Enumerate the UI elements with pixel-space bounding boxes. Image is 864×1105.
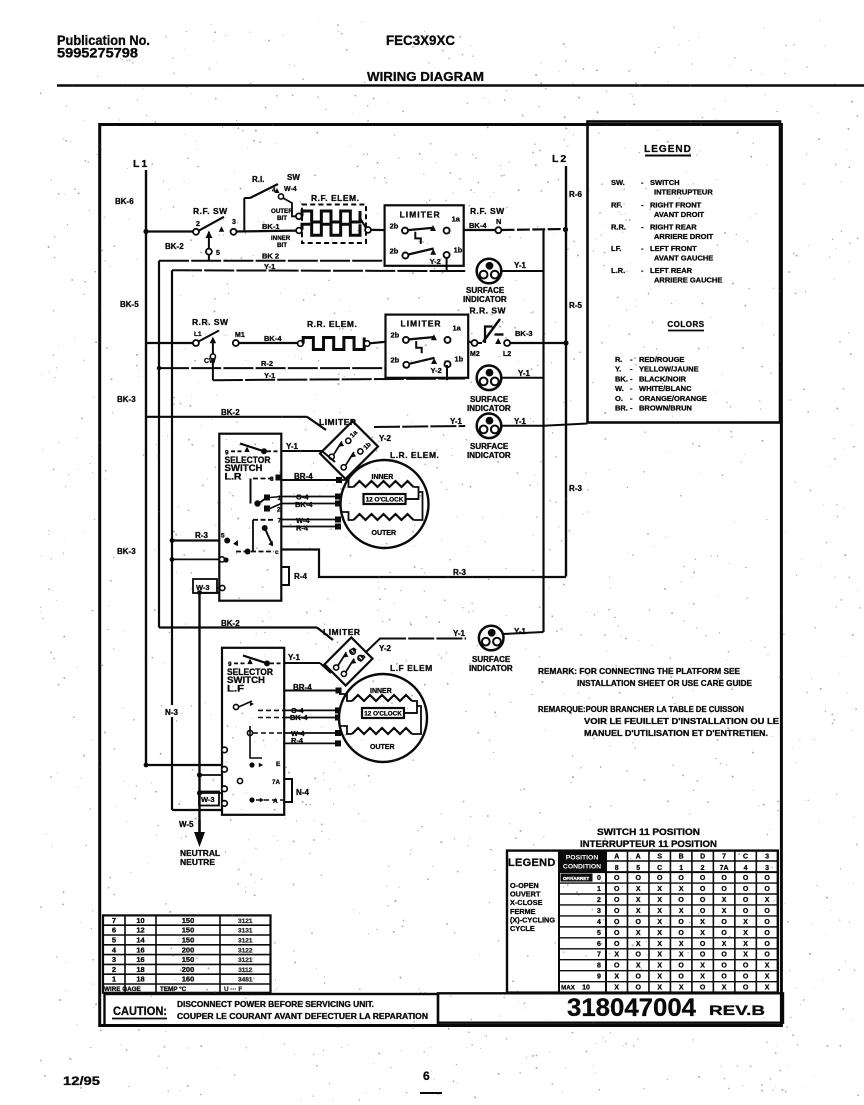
svg-text:7: 7 [722, 854, 726, 861]
svg-text:BK-4: BK-4 [264, 334, 282, 343]
svg-text:O: O [743, 974, 749, 981]
svg-text:LIMITER: LIMITER [401, 319, 442, 329]
svg-text:E: E [276, 761, 281, 768]
svg-text:O: O [700, 952, 706, 959]
svg-text:OUTER: OUTER [271, 208, 293, 215]
svg-text:BK.: BK. [615, 374, 628, 383]
svg-text:BK 2: BK 2 [262, 252, 279, 261]
svg-text:REMARK: FOR CONNECTING THE PLA: REMARK: FOR CONNECTING THE PLATFORM SEE [538, 667, 741, 676]
svg-text:6: 6 [112, 926, 116, 935]
svg-text:200: 200 [182, 965, 195, 974]
svg-text:X: X [722, 908, 727, 915]
svg-text:A: A [614, 854, 619, 861]
svg-text:X: X [657, 897, 662, 904]
svg-text:R.F. ELEM.: R.F. ELEM. [311, 193, 359, 203]
svg-text:c: c [275, 549, 279, 556]
svg-text:X: X [700, 963, 705, 970]
svg-text:RED/ROUGE: RED/ROUGE [639, 355, 684, 364]
svg-text:2b: 2b [390, 246, 399, 255]
svg-text:WIRE GAGE: WIRE GAGE [104, 986, 141, 993]
svg-text:3481: 3481 [238, 977, 253, 984]
svg-text:X: X [636, 941, 641, 948]
svg-text:X: X [700, 930, 705, 937]
svg-text:L1: L1 [194, 331, 202, 338]
svg-text:X: X [657, 908, 662, 915]
svg-text:12/95: 12/95 [63, 1076, 101, 1088]
svg-text:Y-2: Y-2 [431, 366, 442, 375]
svg-text:BIT: BIT [277, 242, 287, 249]
svg-text:Y-2: Y-2 [379, 434, 392, 443]
svg-text:O: O [614, 919, 620, 926]
svg-text:O: O [743, 985, 749, 992]
svg-text:9: 9 [225, 450, 229, 457]
svg-text:BK-5: BK-5 [120, 300, 139, 309]
svg-text:3112: 3112 [238, 967, 252, 974]
svg-text:L.R: L.R [225, 472, 243, 482]
svg-text:R.F. SW: R.F. SW [193, 206, 228, 216]
svg-text:OFF/ARRET: OFF/ARRET [563, 876, 589, 881]
svg-text:R-2: R-2 [261, 359, 273, 368]
svg-text:OUTER: OUTER [372, 530, 397, 537]
svg-text:O: O [678, 930, 684, 937]
svg-text:COLORS: COLORS [667, 320, 704, 329]
svg-text:2: 2 [597, 897, 601, 904]
svg-text:X: X [722, 897, 727, 904]
svg-text:7A: 7A [720, 865, 729, 872]
svg-text:7: 7 [278, 518, 282, 525]
svg-text:NEUTRE: NEUTRE [180, 857, 215, 867]
svg-text:X: X [700, 974, 705, 981]
svg-text:SW.: SW. [611, 178, 625, 187]
svg-text:3: 3 [765, 865, 769, 872]
svg-text:O: O [700, 886, 706, 893]
svg-text:O: O [635, 952, 641, 959]
svg-text:A: A [636, 854, 641, 861]
svg-text:N: N [496, 217, 501, 226]
svg-text:L.R.: L.R. [611, 266, 625, 275]
svg-text:O: O [614, 897, 620, 904]
svg-text:O: O [635, 919, 641, 926]
svg-text:1: 1 [112, 975, 116, 984]
svg-text:INDICATOR: INDICATOR [467, 451, 511, 460]
svg-text:MANUEL D'UTILISATION ET D'ENTR: MANUEL D'UTILISATION ET D'ENTRETIEN. [584, 729, 768, 738]
svg-text:O: O [721, 875, 727, 882]
svg-text:16: 16 [136, 955, 144, 964]
svg-text:CAUTION:: CAUTION: [113, 1004, 167, 1018]
svg-text:BK-4: BK-4 [295, 500, 313, 509]
svg-text:8: 8 [270, 476, 274, 483]
svg-text:O: O [764, 886, 770, 893]
svg-text:R.I.: R.I. [252, 175, 264, 184]
svg-text:R-6: R-6 [569, 190, 582, 199]
svg-text:2b: 2b [391, 356, 400, 365]
svg-text:YELLOW/JAUNE: YELLOW/JAUNE [639, 365, 699, 374]
svg-text:1b: 1b [454, 245, 463, 254]
svg-text:O: O [635, 974, 641, 981]
svg-text:U ··· F: U ··· F [224, 986, 242, 993]
svg-text:S: S [657, 854, 662, 861]
svg-text:O: O [700, 897, 706, 904]
svg-text:CONDITION: CONDITION [563, 864, 601, 871]
svg-text:X: X [679, 941, 684, 948]
svg-text:X: X [614, 974, 619, 981]
svg-text:O: O [614, 908, 620, 915]
svg-text:REMARQUE:POUR BRANCHER LA TABL: REMARQUE:POUR BRANCHER LA TABLE DE CUISS… [538, 705, 744, 714]
svg-text:3: 3 [765, 854, 769, 861]
svg-text:10: 10 [582, 985, 590, 992]
svg-text:R-3: R-3 [569, 484, 582, 493]
svg-text:2: 2 [196, 221, 200, 228]
svg-text:200: 200 [182, 945, 195, 954]
svg-text:BK-3: BK-3 [117, 395, 136, 404]
svg-text:18: 18 [136, 965, 144, 974]
svg-text:3122: 3122 [238, 947, 253, 954]
svg-text:Y-1: Y-1 [450, 417, 463, 426]
svg-text:O: O [764, 875, 770, 882]
svg-text:0: 0 [597, 875, 601, 882]
svg-text:X: X [679, 952, 684, 959]
svg-text:O: O [721, 952, 727, 959]
svg-text:A: A [273, 798, 278, 805]
svg-text:X: X [679, 886, 684, 893]
svg-text:INTERRUPTEUR: INTERRUPTEUR [654, 188, 713, 197]
svg-text:X: X [636, 886, 641, 893]
svg-text:8: 8 [597, 963, 601, 970]
svg-text:X: X [614, 985, 619, 992]
svg-text:X: X [765, 985, 770, 992]
svg-text:SURFACE: SURFACE [472, 655, 511, 664]
svg-text:2b: 2b [391, 331, 400, 340]
svg-text:INNER: INNER [370, 688, 392, 695]
svg-text:X: X [743, 941, 748, 948]
svg-text:O: O [764, 941, 770, 948]
svg-text:12 O'CLOCK: 12 O'CLOCK [366, 497, 404, 504]
svg-text:150: 150 [182, 955, 195, 964]
svg-text:L1: L1 [133, 158, 149, 170]
svg-text:X: X [636, 908, 641, 915]
svg-text:3121: 3121 [238, 918, 253, 925]
svg-text:3: 3 [597, 908, 601, 915]
svg-text:3131: 3131 [238, 928, 253, 935]
svg-text:2: 2 [701, 865, 705, 872]
svg-text:POSITION: POSITION [566, 855, 599, 862]
svg-text:LF.: LF. [611, 244, 621, 253]
svg-text:X: X [743, 919, 748, 926]
svg-text:9: 9 [597, 974, 601, 981]
svg-text:M2: M2 [470, 351, 480, 358]
svg-text:X: X [679, 908, 684, 915]
svg-text:7: 7 [112, 916, 116, 925]
svg-text:Y-1: Y-1 [264, 262, 275, 271]
svg-text:O: O [743, 963, 749, 970]
svg-text:INDICATOR: INDICATOR [467, 404, 511, 413]
svg-text:O: O [721, 974, 727, 981]
svg-text:O.: O. [615, 394, 623, 403]
svg-text:O: O [700, 875, 706, 882]
svg-text:2b: 2b [390, 221, 399, 230]
svg-text:L2: L2 [503, 351, 511, 358]
svg-text:1a: 1a [453, 324, 462, 333]
svg-text:O: O [764, 930, 770, 937]
svg-text:R.R. SW: R.R. SW [192, 317, 229, 327]
svg-text:5: 5 [216, 250, 220, 257]
svg-text:M1: M1 [235, 332, 245, 339]
svg-text:TEMP °C: TEMP °C [160, 985, 187, 993]
svg-text:BR.: BR. [615, 404, 628, 413]
svg-text:Y-1: Y-1 [518, 369, 531, 378]
svg-text:5: 5 [597, 930, 601, 937]
svg-text:SWITCH 11 POSITION: SWITCH 11 POSITION [597, 827, 700, 837]
svg-text:SW: SW [287, 173, 300, 182]
svg-text:AVANT GAUCHE: AVANT GAUCHE [654, 254, 713, 263]
svg-text:4: 4 [597, 919, 601, 926]
svg-text:O: O [614, 930, 620, 937]
svg-text:RIGHT REAR: RIGHT REAR [650, 223, 697, 232]
svg-text:5: 5 [636, 865, 640, 872]
svg-text:150: 150 [182, 936, 195, 945]
svg-text:LEFT REAR: LEFT REAR [650, 266, 693, 275]
svg-text:ORANGE/ORANGE: ORANGE/ORANGE [639, 394, 707, 403]
svg-text:O: O [764, 908, 770, 915]
svg-text:6: 6 [597, 941, 601, 948]
svg-text:O: O [721, 919, 727, 926]
svg-text:X: X [614, 952, 619, 959]
svg-text:9: 9 [228, 661, 232, 668]
svg-text:Y-1: Y-1 [264, 371, 275, 380]
svg-text:R-3: R-3 [195, 531, 208, 540]
svg-text:BK-2: BK-2 [221, 408, 240, 417]
svg-text:1b: 1b [455, 355, 464, 364]
svg-text:O: O [700, 985, 706, 992]
svg-text:O: O [743, 886, 749, 893]
svg-text:O: O [764, 919, 770, 926]
svg-text:LEFT FRONT: LEFT FRONT [650, 244, 697, 253]
svg-text:318047004: 318047004 [567, 994, 696, 1022]
svg-text:O: O [721, 886, 727, 893]
svg-text:INSTALLATION SHEET OR USE CARE: INSTALLATION SHEET OR USE CARE GUIDE [577, 679, 753, 688]
svg-text:Y-1: Y-1 [514, 417, 527, 426]
svg-text:X: X [657, 941, 662, 948]
svg-text:O: O [721, 963, 727, 970]
svg-text:X: X [722, 941, 727, 948]
svg-text:R.F. SW: R.F. SW [470, 206, 505, 216]
svg-text:C: C [743, 854, 748, 861]
svg-text:WIRING DIAGRAM: WIRING DIAGRAM [367, 69, 484, 84]
svg-text:BK-3: BK-3 [117, 547, 136, 556]
svg-text:O: O [614, 875, 620, 882]
svg-text:X: X [657, 985, 662, 992]
svg-text:BIT: BIT [277, 215, 287, 222]
svg-text:N-4: N-4 [296, 788, 309, 797]
svg-text:O: O [614, 963, 620, 970]
svg-text:O: O [743, 897, 749, 904]
svg-text:R.R.: R.R. [611, 223, 626, 232]
svg-text:O: O [678, 897, 684, 904]
svg-text:L.F: L.F [227, 684, 245, 694]
svg-text:16: 16 [136, 945, 144, 954]
svg-text:W-4: W-4 [284, 186, 297, 193]
svg-text:MAX: MAX [561, 985, 576, 992]
svg-text:150: 150 [182, 926, 195, 935]
svg-text:SURFACE: SURFACE [470, 395, 509, 404]
svg-text:SWITCH: SWITCH [650, 178, 680, 187]
svg-text:X: X [636, 963, 641, 970]
svg-text:Y-1: Y-1 [514, 627, 527, 636]
svg-text:O: O [721, 930, 727, 937]
svg-text:3: 3 [112, 955, 116, 964]
svg-text:X: X [765, 963, 770, 970]
svg-text:X: X [765, 897, 770, 904]
svg-text:10: 10 [136, 916, 144, 925]
svg-text:1: 1 [597, 886, 601, 893]
svg-text:Y-1: Y-1 [453, 629, 466, 638]
svg-text:X: X [743, 930, 748, 937]
svg-text:VOIR LE FEUILLET D'INSTALLATIO: VOIR LE FEUILLET D'INSTALLATION OU LE [584, 717, 780, 726]
svg-text:Y-2: Y-2 [430, 257, 441, 266]
svg-text:12: 12 [136, 926, 144, 935]
svg-text:18: 18 [136, 975, 144, 984]
svg-text:R.: R. [615, 355, 623, 364]
svg-text:3: 3 [232, 219, 236, 226]
svg-text:B: B [679, 854, 684, 861]
svg-text:BK-4: BK-4 [469, 221, 487, 230]
svg-text:X: X [743, 952, 748, 959]
svg-text:LEGEND: LEGEND [508, 857, 556, 869]
svg-text:BK-6: BK-6 [115, 197, 134, 206]
svg-text:1a: 1a [452, 214, 461, 223]
svg-text:X: X [657, 886, 662, 893]
svg-text:Y-2: Y-2 [379, 644, 392, 653]
svg-text:Y-1: Y-1 [514, 261, 527, 270]
svg-text:BROWN/BRUN: BROWN/BRUN [639, 404, 692, 413]
svg-text:O: O [678, 963, 684, 970]
svg-text:6: 6 [423, 1069, 430, 1083]
svg-text:Y-1: Y-1 [286, 442, 299, 451]
svg-text:REV.B: REV.B [709, 1003, 765, 1018]
svg-text:ARRIERE GAUCHE: ARRIERE GAUCHE [654, 276, 722, 285]
svg-text:2: 2 [112, 965, 116, 974]
svg-text:SURFACE: SURFACE [470, 442, 509, 451]
svg-text:O: O [635, 875, 641, 882]
svg-text:LIMITER: LIMITER [400, 209, 441, 219]
svg-text:X: X [765, 974, 770, 981]
svg-text:X: X [657, 963, 662, 970]
svg-text:150: 150 [182, 916, 195, 925]
svg-text:ARRIERE DROIT: ARRIERE DROIT [654, 232, 714, 241]
svg-text:LEGEND: LEGEND [644, 144, 692, 155]
svg-text:R-4: R-4 [294, 572, 307, 581]
svg-text:4: 4 [744, 865, 748, 872]
svg-text:7A: 7A [272, 779, 280, 786]
svg-text:LIMITER: LIMITER [323, 627, 361, 637]
svg-text:5: 5 [112, 936, 116, 945]
svg-text:BK-3: BK-3 [515, 329, 533, 338]
svg-text:X: X [657, 974, 662, 981]
svg-text:X: X [657, 952, 662, 959]
svg-text:O: O [678, 875, 684, 882]
svg-text:160: 160 [182, 975, 195, 984]
svg-text:INNER: INNER [372, 474, 394, 481]
svg-text:FEC3X9XC: FEC3X9XC [386, 33, 455, 48]
svg-text:CYCLE: CYCLE [510, 924, 535, 933]
svg-text:R-3: R-3 [453, 568, 466, 577]
svg-text:X: X [679, 985, 684, 992]
svg-text:O: O [743, 908, 749, 915]
svg-text:O: O [614, 941, 620, 948]
svg-text:INNER: INNER [271, 235, 291, 242]
svg-text:C: C [657, 865, 662, 872]
svg-text:R.R. ELEM.: R.R. ELEM. [307, 319, 357, 329]
svg-text:O: O [678, 919, 684, 926]
svg-text:DISCONNECT POWER BEFORE SERVIC: DISCONNECT POWER BEFORE SERVICING UNIT. [177, 1000, 374, 1009]
svg-text:X: X [636, 897, 641, 904]
svg-text:X: X [657, 930, 662, 937]
svg-text:L.R. ELEM.: L.R. ELEM. [390, 450, 439, 460]
svg-text:8: 8 [615, 865, 619, 872]
svg-text:Y.: Y. [615, 365, 621, 374]
svg-text:R.R. SW: R.R. SW [470, 306, 507, 316]
svg-text:14: 14 [136, 936, 145, 945]
svg-text:3121: 3121 [238, 957, 253, 964]
svg-text:BK-1: BK-1 [262, 222, 280, 231]
svg-text:W-5: W-5 [179, 820, 194, 829]
svg-text:5995275798: 5995275798 [57, 46, 139, 61]
svg-text:INDICATOR: INDICATOR [469, 664, 513, 673]
svg-text:BLACK/NOIR: BLACK/NOIR [639, 374, 687, 383]
svg-text:12 O'CLOCK: 12 O'CLOCK [364, 711, 402, 718]
svg-text:RIGHT FRONT: RIGHT FRONT [650, 201, 702, 210]
svg-text:1: 1 [679, 865, 683, 872]
svg-text:O: O [700, 908, 706, 915]
svg-text:Y-1: Y-1 [288, 653, 301, 662]
svg-text:D: D [700, 854, 705, 861]
svg-text:X: X [636, 930, 641, 937]
svg-text:AVANT DROIT: AVANT DROIT [654, 210, 705, 219]
svg-text:N-3: N-3 [165, 708, 178, 717]
svg-text:X: X [722, 985, 727, 992]
svg-text:WHITE/BLANC: WHITE/BLANC [639, 384, 692, 393]
svg-text:OUTER: OUTER [370, 744, 395, 751]
svg-text:O: O [743, 875, 749, 882]
svg-text:RF.: RF. [611, 201, 622, 210]
svg-text:BK-2: BK-2 [165, 242, 184, 251]
svg-text:O: O [700, 941, 706, 948]
svg-text:W-3: W-3 [201, 795, 215, 804]
svg-text:O: O [614, 886, 620, 893]
svg-text:3121: 3121 [238, 938, 253, 945]
svg-text:INDICATOR: INDICATOR [463, 295, 507, 304]
svg-text:4: 4 [272, 187, 276, 194]
svg-text:R-5: R-5 [569, 301, 582, 310]
svg-text:R-4: R-4 [296, 524, 309, 533]
svg-text:7: 7 [597, 952, 601, 959]
svg-text:W.: W. [615, 384, 624, 393]
svg-text:O: O [764, 952, 770, 959]
svg-text:INTERRUPTEUR 11 POSITION: INTERRUPTEUR 11 POSITION [580, 839, 717, 849]
svg-text:L2: L2 [552, 153, 568, 165]
svg-text:O: O [657, 875, 663, 882]
svg-text:5: 5 [221, 533, 225, 540]
svg-text:X: X [657, 919, 662, 926]
svg-text:O: O [678, 974, 684, 981]
svg-text:O: O [635, 985, 641, 992]
svg-text:SURFACE: SURFACE [466, 286, 505, 295]
svg-text:COUPER LE COURANT AVANT DEFECT: COUPER LE COURANT AVANT DEFECTUER LA REP… [177, 1012, 428, 1021]
